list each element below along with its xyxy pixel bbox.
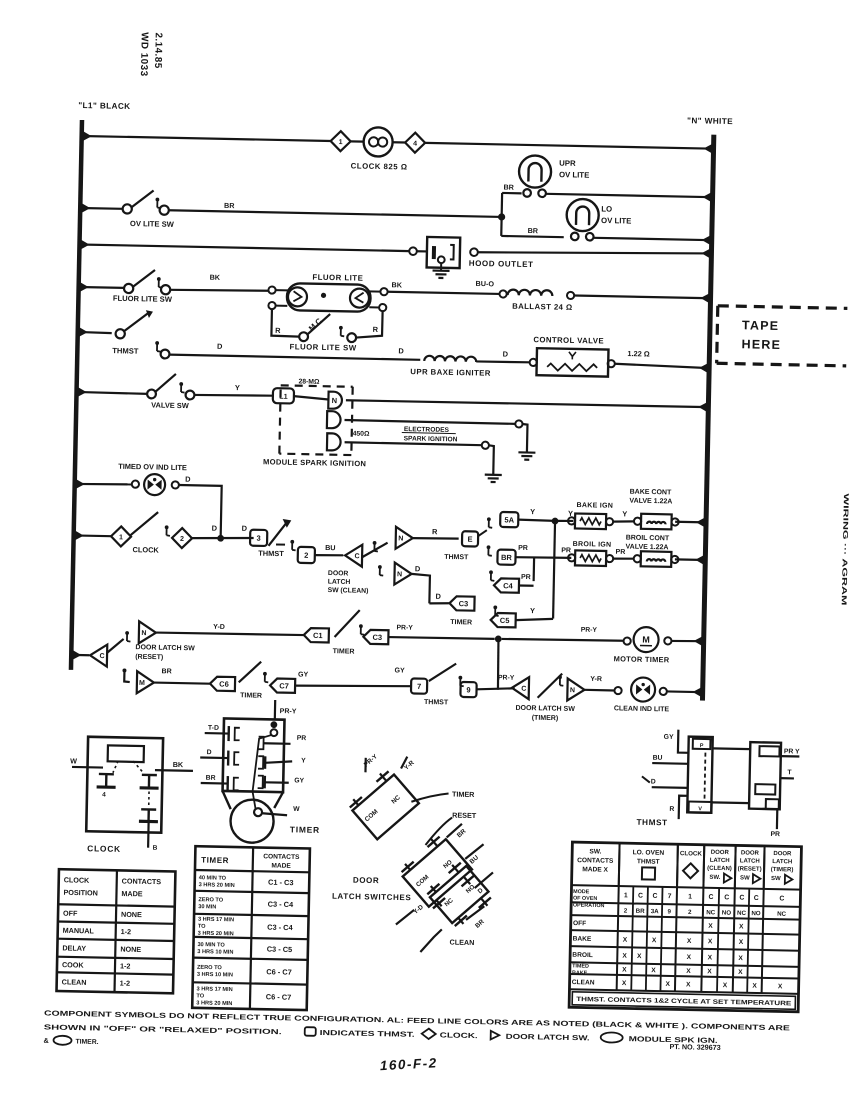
svg-text:3 HRS 20 MIN: 3 HRS 20 MIN xyxy=(198,931,234,938)
door latch switch block (timer) xyxy=(346,767,419,839)
svg-text:CLEAN: CLEAN xyxy=(62,977,87,986)
svg-text:MADE: MADE xyxy=(121,889,143,898)
wire bake valve to bus xyxy=(675,521,706,524)
svg-text:3 HRS 20 MIN: 3 HRS 20 MIN xyxy=(199,882,235,889)
svg-text:TIMER.: TIMER. xyxy=(75,1039,98,1046)
svg-text:PR: PR xyxy=(518,545,528,552)
door latch sw (reset) common xyxy=(90,644,107,666)
svg-text:C6 - C7: C6 - C7 xyxy=(266,967,292,977)
blade door latch reset xyxy=(107,639,123,653)
svg-text:160-F-2: 160-F-2 xyxy=(380,1055,438,1073)
svg-text:40 MIN TO: 40 MIN TO xyxy=(199,875,227,882)
svg-text:D: D xyxy=(435,592,441,601)
svg-text:BALLAST 24 Ω: BALLAST 24 Ω xyxy=(512,302,573,312)
svg-text:BROIL: BROIL xyxy=(572,952,593,959)
svg-text:PR: PR xyxy=(615,549,625,556)
ballast coil BALLAST 24 ohm xyxy=(499,290,506,297)
svg-text:NONE: NONE xyxy=(120,945,141,954)
svg-text:X: X xyxy=(687,954,692,961)
svg-text:TIMER: TIMER xyxy=(201,856,229,866)
svg-text:OF OVEN: OF OVEN xyxy=(573,896,597,902)
svg-text:Y-D: Y-D xyxy=(213,624,225,631)
svg-text:DOOR: DOOR xyxy=(353,876,380,886)
svg-text:D: D xyxy=(242,524,248,533)
ground electrode 1 xyxy=(518,451,535,454)
junction node row9 xyxy=(495,635,502,642)
svg-text:M: M xyxy=(642,635,650,645)
svg-text:BU-O: BU-O xyxy=(476,279,495,288)
svg-text:V: V xyxy=(698,806,702,812)
svg-text:LO: LO xyxy=(601,204,612,213)
svg-text:DOOR LATCH SW.: DOOR LATCH SW. xyxy=(506,1032,590,1043)
svg-text:CONTACTS: CONTACTS xyxy=(263,853,300,861)
timer contact C1 xyxy=(304,628,329,642)
svg-text:X: X xyxy=(622,967,627,974)
thermostat terminal 3 xyxy=(250,530,267,546)
svg-text:X: X xyxy=(708,923,713,930)
junction node xyxy=(217,535,224,542)
door latch sw clean NO contact xyxy=(396,527,413,549)
door latch sw timer contact xyxy=(567,678,584,700)
timer motor contact xyxy=(137,671,154,693)
svg-text:X: X xyxy=(723,982,728,989)
switch blade timer C1-C3 xyxy=(335,610,360,638)
control valve CONTROL VALVE 1.22 ohm xyxy=(530,359,537,366)
svg-text:VALVE 1.22A: VALVE 1.22A xyxy=(629,498,672,506)
svg-text:1: 1 xyxy=(119,534,123,541)
svg-text:5A: 5A xyxy=(504,515,514,524)
clock contact 2 (diamond) xyxy=(172,528,192,548)
svg-text:THMST: THMST xyxy=(444,554,469,561)
wire xyxy=(351,140,364,142)
indicator lamp CLEAN IND LITE xyxy=(614,687,621,694)
svg-text:N: N xyxy=(570,687,575,694)
svg-text:BROIL IGN: BROIL IGN xyxy=(573,541,612,549)
timer top terminal xyxy=(270,721,277,728)
svg-text:BAKE: BAKE xyxy=(572,970,588,976)
svg-text:SW.: SW. xyxy=(709,875,720,881)
door latch Y-D lead xyxy=(396,909,414,924)
svg-text:TIMED OV IND LITE: TIMED OV IND LITE xyxy=(118,462,187,472)
svg-text:30 MIN: 30 MIN xyxy=(198,904,216,910)
igniter BAKE IGN xyxy=(575,513,606,529)
svg-text:LATCH: LATCH xyxy=(710,858,730,864)
wire row1 right segment xyxy=(425,143,713,149)
svg-text:N: N xyxy=(398,535,403,542)
svg-text:R: R xyxy=(275,326,281,335)
lamp UPR OV LITE xyxy=(519,155,552,188)
svg-text:SW.: SW. xyxy=(589,848,601,855)
svg-text:OPERATION: OPERATION xyxy=(573,903,605,910)
svg-text:CONTACTS: CONTACTS xyxy=(122,876,162,886)
wire control valve to bus xyxy=(615,364,709,368)
svg-text:OV LITE: OV LITE xyxy=(559,170,590,180)
switch blade C6-C7 xyxy=(239,661,261,682)
thermostat terminal 7 xyxy=(411,678,427,693)
svg-text:MADE: MADE xyxy=(271,862,291,869)
svg-text:N: N xyxy=(141,630,146,637)
svg-text:PT. NO. 329673: PT. NO. 329673 xyxy=(669,1042,720,1052)
module connector electrode 2 xyxy=(327,433,341,450)
component THMST (detail) xyxy=(687,737,713,813)
svg-text:7: 7 xyxy=(668,893,672,900)
svg-text:LATCH: LATCH xyxy=(772,859,792,865)
thmst PR lead xyxy=(776,809,779,829)
svg-text:NO: NO xyxy=(442,859,454,870)
svg-text:Y: Y xyxy=(530,507,535,516)
wire LO lamp to bus xyxy=(594,238,712,240)
svg-text:X: X xyxy=(652,937,657,944)
svg-text:N: N xyxy=(397,571,402,578)
svg-text:COM: COM xyxy=(364,808,380,823)
wire broil valve to bus xyxy=(675,558,705,561)
svg-text:P: P xyxy=(700,743,704,749)
svg-text:(CLEAN): (CLEAN) xyxy=(707,866,732,872)
svg-text:BR: BR xyxy=(636,908,646,915)
switch blade thmst 7-9 xyxy=(429,663,456,682)
wire 9 to door latch timer xyxy=(477,688,515,691)
svg-text:THMST: THMST xyxy=(637,858,660,865)
svg-text:PR-Y: PR-Y xyxy=(363,753,380,769)
svg-text:NO: NO xyxy=(722,910,732,917)
svg-text:OFF: OFF xyxy=(63,909,78,918)
svg-text:1-2: 1-2 xyxy=(120,978,131,987)
svg-text:D: D xyxy=(477,887,485,896)
svg-text:MADE X: MADE X xyxy=(582,866,608,874)
svg-text:GY: GY xyxy=(394,667,405,674)
svg-text:GY: GY xyxy=(664,734,674,741)
svg-text:SPARK IGNITION: SPARK IGNITION xyxy=(404,435,458,443)
svg-text:CLEAN: CLEAN xyxy=(572,979,595,986)
svg-text:TIMER: TIMER xyxy=(450,619,472,626)
thermostat THMST (variable) xyxy=(116,329,125,338)
svg-text:"L1" BLACK: "L1" BLACK xyxy=(78,101,130,111)
wire junction down to row10 xyxy=(497,639,499,690)
timer cam housing xyxy=(222,791,231,809)
svg-text:(RESET): (RESET) xyxy=(738,866,762,872)
svg-text:CLOCK.: CLOCK. xyxy=(440,1030,478,1040)
svg-text:30 MIN TO: 30 MIN TO xyxy=(197,942,225,949)
timer contact C4 xyxy=(494,578,519,592)
svg-text:COM: COM xyxy=(415,874,430,889)
wire vertical lamp feed xyxy=(500,193,503,236)
svg-text:C1: C1 xyxy=(313,631,323,640)
door latch switch block (reset) xyxy=(396,832,478,915)
motor timer MOTOR TIMER xyxy=(623,637,630,644)
wire LO lamp row xyxy=(501,236,563,237)
svg-text:BR: BR xyxy=(206,775,216,782)
wire UPR lamp row xyxy=(502,192,521,195)
wire 5A to junction xyxy=(518,520,555,521)
timer contact C7 xyxy=(270,678,295,692)
door latch sw clean lower: hook xyxy=(378,565,382,569)
svg-text:W: W xyxy=(293,806,300,813)
svg-text:1: 1 xyxy=(624,892,628,899)
svg-text:C3 - C5: C3 - C5 xyxy=(267,945,293,955)
wire to door latch sw clean xyxy=(315,554,344,557)
svg-text:PR-Y: PR-Y xyxy=(498,674,515,681)
wire to clean ind lite xyxy=(584,689,614,692)
svg-text:Y: Y xyxy=(530,606,535,615)
svg-text:X: X xyxy=(708,938,713,945)
igniter BROIL IGN xyxy=(575,550,606,566)
svg-text:T-D: T-D xyxy=(208,725,219,732)
wire motor timer to bus xyxy=(671,641,703,642)
svg-text:3: 3 xyxy=(256,534,260,543)
indicator lamp TIMED OV IND LITE xyxy=(132,480,139,487)
blade door latch timer xyxy=(538,673,563,698)
svg-text:D: D xyxy=(415,564,421,573)
svg-text:C6 - C7: C6 - C7 xyxy=(266,992,292,1002)
svg-text:POSITION: POSITION xyxy=(63,888,98,898)
svg-text:C: C xyxy=(708,894,713,901)
svg-text:C3: C3 xyxy=(372,633,382,642)
svg-text:PR Y: PR Y xyxy=(784,748,800,755)
svg-text:C3: C3 xyxy=(459,599,469,608)
svg-text:LATCH SWITCHES: LATCH SWITCHES xyxy=(332,892,412,903)
svg-text:TIMED: TIMED xyxy=(572,963,589,969)
svg-text:R: R xyxy=(373,325,379,334)
svg-text:FLUOR LITE SW: FLUOR LITE SW xyxy=(289,342,356,352)
switch blade door latch clean xyxy=(362,542,387,557)
hook at C4 xyxy=(489,570,493,574)
svg-text:X: X xyxy=(738,955,743,962)
svg-text:BK: BK xyxy=(210,273,221,282)
svg-text:4: 4 xyxy=(102,792,106,799)
svg-text:OFF: OFF xyxy=(573,920,586,927)
hook row10 start xyxy=(124,671,130,682)
svg-text:C: C xyxy=(653,893,658,900)
module connector electrode 1 xyxy=(327,411,341,428)
module terminal L1 xyxy=(273,388,294,403)
svg-text:X: X xyxy=(665,981,670,988)
hook at C5 xyxy=(493,605,497,609)
clock contact 1 (diamond) xyxy=(111,526,131,546)
svg-text:X: X xyxy=(707,968,712,975)
svg-text:D: D xyxy=(398,346,404,355)
svg-text:X: X xyxy=(686,981,691,988)
wire to fixture xyxy=(170,289,269,292)
timer PR terminal xyxy=(258,737,263,750)
svg-text:FLUOR LITE: FLUOR LITE xyxy=(312,273,363,283)
wire C5 to Y junction xyxy=(516,618,553,621)
svg-text:4: 4 xyxy=(413,140,417,147)
hood outlet terminal circle xyxy=(409,247,417,255)
svg-text:3 HRS 17 MIN: 3 HRS 17 MIN xyxy=(198,917,234,924)
svg-text:X: X xyxy=(686,968,691,975)
svg-text:CLOCK: CLOCK xyxy=(64,875,91,885)
svg-text:C5: C5 xyxy=(500,616,510,625)
component TIMER (detail) xyxy=(223,718,285,792)
svg-text:C: C xyxy=(754,895,759,902)
timer GY terminal xyxy=(258,776,263,789)
wire xyxy=(192,537,254,540)
bus L1 (left vertical feed) xyxy=(71,120,82,670)
module connector N xyxy=(328,392,342,409)
svg-text:28-MΩ: 28-MΩ xyxy=(298,378,320,385)
switch FLUOR LITE SW (panel) xyxy=(124,284,133,293)
svg-text:D: D xyxy=(207,749,212,756)
thermostat terminal 2 xyxy=(298,547,315,563)
svg-text:X: X xyxy=(623,937,628,944)
wire module N to bus xyxy=(346,400,708,408)
svg-text:DOOR: DOOR xyxy=(741,850,760,856)
wire row2 to lamp node xyxy=(169,210,502,217)
hook at BR xyxy=(487,545,491,549)
svg-text:CONTACTS: CONTACTS xyxy=(577,857,614,865)
wire D to timer contact C3 xyxy=(429,602,449,605)
svg-text:X: X xyxy=(622,953,627,960)
svg-text:MOTOR TIMER: MOTOR TIMER xyxy=(614,654,670,664)
switch OV LITE SW xyxy=(123,204,132,213)
svg-text:GY: GY xyxy=(294,777,304,784)
svg-text:LATCH: LATCH xyxy=(328,579,351,586)
svg-text:COOK: COOK xyxy=(62,960,85,969)
svg-text:HOOD OUTLET: HOOD OUTLET xyxy=(469,259,534,269)
wire to broil valve xyxy=(612,557,634,560)
svg-text:CONTROL VALVE: CONTROL VALVE xyxy=(533,335,604,345)
svg-text:X: X xyxy=(752,983,757,990)
svg-text:X: X xyxy=(778,983,783,990)
svg-text:LATCH: LATCH xyxy=(740,858,760,864)
timer contact C3 xyxy=(449,596,474,610)
timer contact C6 xyxy=(210,677,235,691)
switch VALVE SW xyxy=(147,389,156,398)
svg-text:X: X xyxy=(687,938,692,945)
wire + hook to 5A xyxy=(478,530,487,536)
svg-text:THMST: THMST xyxy=(424,699,449,706)
svg-text:X: X xyxy=(739,939,744,946)
wire row1 left segment xyxy=(82,136,331,141)
bus N (right vertical neutral) xyxy=(702,135,713,701)
wire C3 to junction xyxy=(388,637,494,639)
svg-text:C: C xyxy=(354,553,359,560)
svg-text:BK: BK xyxy=(391,280,402,289)
heater coil UPR BAKE IGNITER xyxy=(424,356,476,362)
svg-text:C: C xyxy=(638,893,643,900)
svg-text:MODULE SPARK IGNITION: MODULE SPARK IGNITION xyxy=(263,457,366,468)
wire row4 to ballast xyxy=(388,292,500,294)
svg-text:FLUOR LITE SW: FLUOR LITE SW xyxy=(113,294,173,304)
svg-text:THMST: THMST xyxy=(636,818,667,828)
svg-text:C4: C4 xyxy=(503,581,514,590)
svg-text:X: X xyxy=(622,980,627,987)
wire C7 to thermostat 7 xyxy=(295,684,411,688)
svg-text:VALVE 1.22A: VALVE 1.22A xyxy=(625,543,668,551)
svg-text:450Ω: 450Ω xyxy=(353,430,370,437)
wire row9 to C1 xyxy=(156,632,304,635)
clock contact terminal 1 (diamond) xyxy=(330,131,350,151)
svg-text:BR: BR xyxy=(528,226,539,235)
component CLOCK (detail) xyxy=(86,737,163,833)
svg-text:PR-Y: PR-Y xyxy=(581,627,598,634)
wire row5 from bus xyxy=(78,332,112,333)
svg-text:RESET: RESET xyxy=(452,811,477,820)
svg-text:TAPE: TAPE xyxy=(742,318,779,333)
svg-text:SW (CLEAN): SW (CLEAN) xyxy=(328,587,369,595)
thermostat THMST (diagonal) xyxy=(268,522,286,546)
door latch clean lead + label xyxy=(420,929,441,952)
wire D down to C3 xyxy=(411,574,430,603)
svg-text:TIMER: TIMER xyxy=(290,824,320,835)
wire row2 from bus xyxy=(80,207,122,210)
thmst connecting wires xyxy=(713,747,751,750)
wire to C6 xyxy=(154,683,210,684)
svg-text:DELAY: DELAY xyxy=(62,943,86,952)
svg-text:NONE: NONE xyxy=(121,910,142,919)
door latch sw clean NC contact xyxy=(394,563,411,585)
svg-text:D: D xyxy=(503,349,509,358)
TAPE HERE dashed box xyxy=(717,306,848,366)
svg-text:NO: NO xyxy=(465,883,477,894)
wire row3 from bus xyxy=(80,244,410,251)
svg-text:C6: C6 xyxy=(219,680,229,689)
svg-text:UPR: UPR xyxy=(559,159,576,168)
door latch sw (timer) common xyxy=(512,677,529,699)
svg-text:W: W xyxy=(70,756,77,765)
svg-text:ZERO TO: ZERO TO xyxy=(197,965,223,972)
timer PR-Y lead xyxy=(274,700,277,719)
svg-text:HERE: HERE xyxy=(741,337,781,352)
door latch sw reset contact xyxy=(139,621,156,643)
svg-text:SW: SW xyxy=(740,875,750,881)
lamp LO OV LITE xyxy=(566,199,599,232)
svg-text:NO: NO xyxy=(751,910,761,917)
svg-text:INDICATES THMST.: INDICATES THMST. xyxy=(320,1028,415,1039)
receptacle HOOD OUTLET xyxy=(427,237,461,268)
svg-text:BAKE: BAKE xyxy=(573,936,592,943)
svg-text:BR: BR xyxy=(503,182,514,191)
clock B lead xyxy=(147,821,150,847)
svg-text:B: B xyxy=(153,845,158,852)
wire BR to broil igniter xyxy=(516,557,572,559)
svg-text:BR: BR xyxy=(501,553,513,562)
thmst T lead xyxy=(780,777,794,779)
svg-text:X: X xyxy=(651,967,656,974)
svg-text:C7: C7 xyxy=(279,681,289,690)
svg-text:BR: BR xyxy=(456,828,468,840)
wire row9 from bus xyxy=(71,654,89,657)
svg-text:GY: GY xyxy=(298,671,309,678)
wire to module L1 terminal xyxy=(195,394,273,396)
svg-text:NC: NC xyxy=(737,910,747,917)
timer cam circle xyxy=(230,799,274,843)
svg-text:D: D xyxy=(217,342,223,351)
wire row6 from bus xyxy=(77,392,148,394)
wire row4 from bus xyxy=(79,286,124,289)
svg-text:WD 1033: WD 1033 xyxy=(138,32,150,77)
junction node xyxy=(498,213,505,220)
svg-text:2: 2 xyxy=(304,551,308,560)
svg-text:CLOCK: CLOCK xyxy=(680,850,703,857)
table CLOCK POSITION / CONTACTS MADE xyxy=(57,869,176,993)
svg-text:C3 - C4: C3 - C4 xyxy=(268,900,295,910)
svg-text:C1 - C3: C1 - C3 xyxy=(268,878,294,888)
door latch switch (clean) common xyxy=(345,544,362,566)
svg-text:3A: 3A xyxy=(651,908,660,915)
svg-text:DOOR: DOOR xyxy=(711,850,730,856)
svg-text:DOOR: DOOR xyxy=(328,570,349,577)
svg-text:&: & xyxy=(43,1036,48,1045)
wire to motor timer xyxy=(502,638,624,641)
svg-text:R: R xyxy=(432,527,438,536)
wire L1 to N connector xyxy=(294,396,329,399)
door latch switch block (clean) xyxy=(423,858,495,930)
clock dashed linkages xyxy=(112,761,149,808)
fluorescent fixture FLUOR LITE xyxy=(268,286,275,293)
wire xyxy=(393,141,405,143)
svg-text:Y: Y xyxy=(235,383,240,392)
